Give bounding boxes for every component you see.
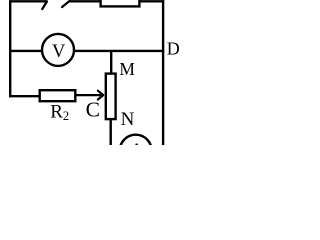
wire top-right segment <box>139 0 164 2</box>
wire below rheostat to bottom edge <box>109 119 111 145</box>
wire middle horizontal, right of voltmeter <box>73 50 164 52</box>
svg-text:R2: R2 <box>50 102 69 124</box>
wire left vertical <box>9 0 11 97</box>
svg-text:V: V <box>52 42 66 62</box>
svg-text:D: D <box>167 39 180 59</box>
wire right vertical <box>162 0 164 145</box>
rheostat body M-N (vertical box) <box>106 74 116 120</box>
wire R2 branch from left vertical <box>10 95 40 97</box>
wire top middle segment <box>69 0 101 2</box>
svg-text:A: A <box>130 140 143 146</box>
resistor R2 (box) <box>40 90 76 101</box>
svg-text:N: N <box>121 109 135 130</box>
rheostat wiper arrow (slider C) <box>98 91 103 100</box>
svg-text:M: M <box>119 59 135 79</box>
wire vertical from middle line down to rheostat top <box>110 51 112 74</box>
switch S (open knife switch, cropped at top) <box>42 1 69 9</box>
wire from R2 to wiper arrow <box>75 94 101 96</box>
ammeter A (circle cropped by bottom edge) <box>120 135 152 167</box>
wire middle horizontal, left of voltmeter <box>9 50 43 52</box>
resistor R1 (box cropped by top edge) <box>101 0 140 6</box>
wire top-left horizontal <box>9 0 47 2</box>
svg-text:C: C <box>86 97 100 121</box>
voltmeter V <box>42 34 74 66</box>
